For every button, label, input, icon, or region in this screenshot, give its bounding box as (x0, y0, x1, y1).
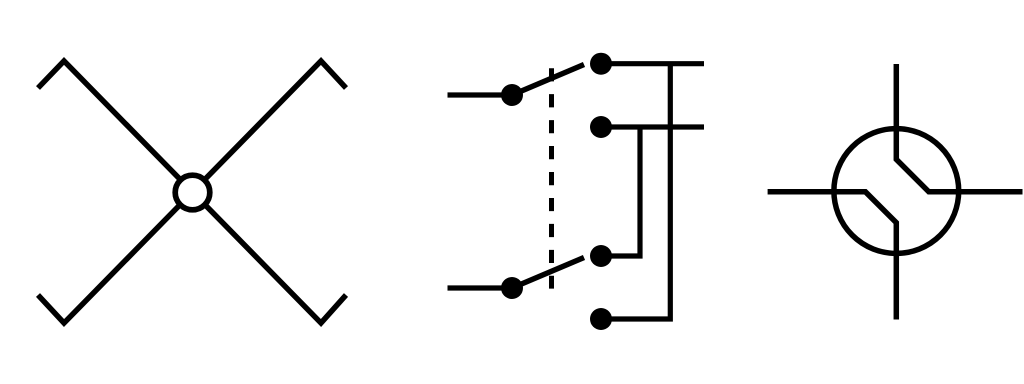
switch lever 2 (512, 258, 584, 289)
wire cross-connect contact 1 to contact 4 (601, 64, 670, 319)
wire terminal 2 (601, 124, 704, 129)
switch lever 1 (512, 65, 584, 96)
node circle junction (175, 175, 210, 210)
node throw contact 3 (590, 245, 612, 267)
node pole 1 (501, 84, 523, 106)
wire pole 1 lead (448, 92, 513, 97)
wire cross-connect contact 2 to contact 3 (601, 127, 640, 256)
crossover symbol 2: DPDT reversing switch (448, 53, 705, 330)
wire top-to-right path (896, 64, 1022, 192)
wire terminal 1 (601, 61, 704, 66)
circle body (834, 129, 959, 254)
node pole 2 (501, 277, 523, 299)
node throw contact 2 (590, 116, 612, 138)
crossover symbol 1: X with circle junction (38, 61, 346, 323)
node throw contact 4 (590, 308, 612, 330)
wire diagonal UL-LR with end hooks (38, 61, 346, 323)
crossover symbol 3: circled transposition (768, 64, 1023, 320)
node throw contact 1 (590, 53, 612, 75)
wire left-to-bottom path (768, 192, 897, 320)
wire pole 2 lead (448, 285, 513, 290)
wire diagonal UR-LL with end hooks (38, 61, 346, 323)
mechanical link (dashed) (549, 68, 554, 288)
